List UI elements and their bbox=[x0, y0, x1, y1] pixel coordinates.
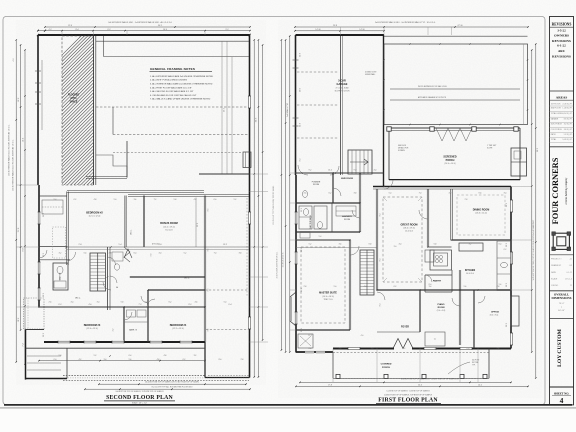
four corners square logo bbox=[553, 233, 569, 249]
front door swing bbox=[393, 339, 413, 349]
right plan dim tick crosses bbox=[332, 172, 334, 174]
svg-text:4'-0: 4'-0 bbox=[159, 252, 162, 254]
hall walls bbox=[107, 247, 109, 310]
svg-text:REVISIONS: REVISIONS bbox=[552, 39, 571, 43]
covered porch posts bbox=[336, 374, 340, 378]
floored attic hatched area bbox=[0, 36, 309, 185]
left plan attic access zigzag bbox=[124, 247, 130, 262]
left wall window ticks upper bbox=[35, 70, 41, 72]
svg-text:10'-2: 10'-2 bbox=[506, 243, 508, 247]
svg-text:4'-8: 4'-8 bbox=[164, 355, 167, 357]
bath2 room bbox=[53, 263, 68, 290]
svg-text:9'-6: 9'-6 bbox=[208, 289, 210, 292]
svg-text:8'-2: 8'-2 bbox=[189, 304, 192, 306]
garage exterior walls bbox=[296, 34, 385, 36]
svg-text:3. ALL INTERIOR WALLS ARE 2x4: 3. ALL INTERIOR WALLS ARE 2x4 UNLESS OTH… bbox=[150, 82, 213, 85]
svg-text:LAUNDRY: LAUNDRY bbox=[342, 215, 353, 218]
svg-text:6'-0: 6'-0 bbox=[54, 359, 57, 361]
svg-text:6'-4: 6'-4 bbox=[309, 348, 312, 350]
office bay window bbox=[511, 296, 519, 326]
dining tray dashed bbox=[457, 195, 505, 235]
left plan window openings right wall bbox=[248, 96, 251, 108]
svg-text:12'-6: 12'-6 bbox=[301, 208, 303, 212]
svg-text:12'-6: 12'-6 bbox=[301, 248, 303, 252]
svg-text:21'-4 14'-10 12'-6: 21'-4 14'-10 12'-6 bbox=[283, 253, 285, 268]
svg-text:19'-6: 19'-6 bbox=[224, 108, 226, 112]
svg-text:PORCH: PORCH bbox=[446, 159, 455, 162]
svg-text:4'-2: 4'-2 bbox=[194, 199, 197, 201]
svg-text:10'-0: 10'-0 bbox=[300, 88, 302, 92]
svg-text:BEDROOM #2: BEDROOM #2 bbox=[86, 211, 103, 214]
svg-text:3'-0: 3'-0 bbox=[371, 348, 374, 350]
svg-text:6'-4: 6'-4 bbox=[134, 252, 137, 254]
left plan top dimension lines bbox=[45, 26, 250, 28]
svg-text:DINING ROOM: DINING ROOM bbox=[473, 208, 489, 211]
svg-text:(8'-0 x 9'-0): (8'-0 x 9'-0) bbox=[490, 315, 499, 317]
svg-text:(9'-0 x 9'-6): (9'-0 x 9'-6) bbox=[437, 310, 446, 312]
svg-text:5'-2: 5'-2 bbox=[234, 199, 237, 201]
svg-text:BEDROOM #4: BEDROOM #4 bbox=[170, 324, 187, 327]
screened porch posts bbox=[387, 127, 391, 131]
svg-text:GARAGE: GARAGE bbox=[551, 118, 559, 121]
patio interior lines bbox=[390, 88, 520, 90]
svg-text:14'-10: 14'-10 bbox=[315, 29, 320, 31]
project info rows bbox=[550, 254, 574, 256]
right plan window openings right wall bbox=[510, 200, 513, 212]
svg-text:47'-10: 47'-10 bbox=[457, 25, 462, 27]
svg-text:11'-2: 11'-2 bbox=[43, 293, 45, 297]
left plan fixtures bath2 bbox=[57, 266, 63, 274]
left plan stair-step hatch boundary bbox=[96, 155, 127, 178]
svg-text:GARAGE: GARAGE bbox=[337, 83, 348, 86]
svg-text:7'-0: 7'-0 bbox=[214, 252, 217, 254]
svg-text:3'-2: 3'-2 bbox=[469, 244, 472, 246]
svg-text:TOTAL: TOTAL bbox=[551, 138, 557, 141]
svg-text:4'-0: 4'-0 bbox=[374, 169, 377, 171]
svg-text:5'-2: 5'-2 bbox=[184, 252, 187, 254]
svg-text:7'-0: 7'-0 bbox=[419, 192, 422, 194]
bath3 walls bbox=[122, 307, 124, 342]
svg-text:REVISIONS: REVISIONS bbox=[552, 54, 571, 58]
svg-text:3,694 SQ.FT.: 3,694 SQ.FT. bbox=[562, 113, 572, 115]
svg-text:4'-2: 4'-2 bbox=[79, 359, 82, 361]
svg-text:8'-0: 8'-0 bbox=[429, 284, 432, 286]
lower-left bay window dotted bbox=[24, 298, 45, 329]
svg-text:FLOORED: FLOORED bbox=[68, 95, 80, 97]
svg-text:COVERED: COVERED bbox=[381, 364, 392, 366]
svg-text:8'-4: 8'-4 bbox=[380, 259, 382, 262]
svg-text:10'-0 CLG: 10'-0 CLG bbox=[466, 273, 475, 275]
svg-text:ROOM: ROOM bbox=[344, 219, 350, 221]
svg-text:6'-0: 6'-0 bbox=[499, 244, 502, 246]
svg-text:PROJECT #: PROJECT # bbox=[551, 259, 562, 261]
sheet number block bbox=[550, 386, 574, 388]
pool bath room bbox=[511, 148, 527, 176]
svg-text:3'-0: 3'-0 bbox=[97, 302, 100, 304]
left plan corner marks bbox=[37, 34, 39, 36]
svg-text:2x6 EXTERIOR WALLS 2x10 FLOOR: 2x6 EXTERIOR WALLS 2x10 FLOOR JOISTS AT … bbox=[12, 139, 15, 191]
svg-text:(24'-0 x 14'-0): (24'-0 x 14'-0) bbox=[445, 163, 456, 165]
svg-text:11'-2: 11'-2 bbox=[43, 213, 45, 217]
kitchen counters right wall bbox=[497, 241, 511, 290]
svg-text:4'-0: 4'-0 bbox=[399, 244, 402, 246]
right plan bottom dimension lines bbox=[300, 381, 511, 383]
svg-text:4'-8: 4'-8 bbox=[94, 199, 97, 201]
svg-text:BATH#2: BATH#2 bbox=[59, 272, 62, 280]
svg-text:2'-4: 2'-4 bbox=[145, 302, 148, 304]
svg-text:JOB NO.: JOB NO. bbox=[551, 285, 559, 287]
svg-text:16'-0 BOTTOM TOP OF SUBFLOOR T: 16'-0 BOTTOM TOP OF SUBFLOOR TO BOTTOM T… bbox=[145, 381, 199, 383]
svg-text:6'-2: 6'-2 bbox=[107, 29, 110, 31]
svg-text:GREAT ROOM: GREAT ROOM bbox=[400, 223, 417, 226]
svg-text:SECOND FLOOR PLAN: SECOND FLOOR PLAN bbox=[106, 395, 173, 401]
svg-text:9'-6: 9'-6 bbox=[208, 249, 210, 252]
svg-text:5'-0 BTM TOP OF SUBFLR · 10 BT: 5'-0 BTM TOP OF SUBFLR · 10 BTM TOP OF S… bbox=[386, 390, 430, 392]
svg-text:(13'-6 x 12'-0): (13'-6 x 12'-0) bbox=[475, 213, 487, 215]
svg-text:POWDER: POWDER bbox=[312, 182, 321, 184]
bath fixtures right of stairs bbox=[112, 252, 123, 261]
right plan extension lines bbox=[290, 172, 296, 174]
svg-text:6-1-22: 6-1-22 bbox=[557, 44, 566, 48]
svg-text:5'-6: 5'-6 bbox=[464, 286, 467, 288]
svg-text:W.I.C.: W.I.C. bbox=[184, 277, 190, 279]
svg-text:ROOM: ROOM bbox=[438, 307, 445, 309]
svg-text:1. ALL EXTERIOR WALLS ARE 2x6: 1. ALL EXTERIOR WALLS ARE 2x6 UNLESS OTH… bbox=[150, 75, 214, 78]
svg-text:PATIO: PATIO bbox=[551, 133, 557, 136]
left plan chase dotted bbox=[53, 227, 66, 258]
svg-text:8'-0 CLG: 8'-0 CLG bbox=[165, 229, 173, 231]
svg-text:4'-2: 4'-2 bbox=[48, 29, 51, 31]
svg-text:DRAWN BY: DRAWN BY bbox=[551, 264, 562, 267]
svg-text:4'-8: 4'-8 bbox=[339, 348, 342, 350]
svg-text:352 SQ.FT.: 352 SQ.FT. bbox=[564, 124, 573, 126]
svg-text:3'-4: 3'-4 bbox=[104, 359, 107, 361]
svg-text:SCREEN: SCREEN bbox=[398, 150, 405, 152]
porch leader note bbox=[448, 362, 470, 374]
svg-text:75'-4": 75'-4" bbox=[559, 303, 565, 305]
svg-text:6'-2: 6'-2 bbox=[183, 359, 186, 361]
svg-text:3'-2: 3'-2 bbox=[59, 252, 62, 254]
right plan fixtures bbox=[302, 191, 307, 198]
svg-text:3'-8: 3'-8 bbox=[239, 252, 242, 254]
svg-text:14'-2: 14'-2 bbox=[478, 384, 482, 386]
svg-text:7. ALL WALLS 9'-0 AND UP ARE U: 7. ALL WALLS 9'-0 AND UP ARE UNLESS OTHE… bbox=[150, 98, 211, 101]
svg-text:12'-0 CLG: 12'-0 CLG bbox=[405, 231, 414, 233]
svg-text:5'-6: 5'-6 bbox=[499, 284, 502, 286]
house right wall bbox=[510, 187, 512, 349]
bedroom2 walls bbox=[124, 196, 126, 248]
rear patio outline bbox=[384, 44, 528, 125]
svg-text:SLOPE TO DOOR: SLOPE TO DOOR bbox=[335, 90, 351, 92]
svg-text:2'-6: 2'-6 bbox=[497, 348, 500, 350]
svg-text:PIANO: PIANO bbox=[438, 303, 445, 306]
svg-text:11'-8: 11'-8 bbox=[300, 53, 302, 57]
svg-text:6. CEILING AND FLOOR JOIST AS: 6. CEILING AND FLOOR JOIST AS CALLED OUT bbox=[150, 94, 197, 97]
patio roof line bbox=[384, 35, 528, 37]
svg-text:5'-4: 5'-4 bbox=[389, 192, 392, 194]
svg-text:5'-6: 5'-6 bbox=[129, 359, 132, 361]
right plan left dimension lines bbox=[280, 40, 282, 350]
upper interior walls bbox=[199, 172, 249, 174]
svg-text:CL: CL bbox=[434, 339, 436, 341]
svg-text:8'-4: 8'-4 bbox=[380, 214, 382, 217]
svg-text:4" CONC. SLAB: 4" CONC. SLAB bbox=[335, 87, 349, 90]
svg-text:9'-6: 9'-6 bbox=[208, 329, 210, 332]
left plan sill line bbox=[26, 347, 206, 349]
left plan right dimension lines bbox=[253, 40, 255, 377]
svg-text:14'-10: 14'-10 bbox=[359, 29, 364, 31]
master bath fixtures bbox=[299, 206, 312, 229]
svg-text:PANTRY: PANTRY bbox=[433, 279, 442, 282]
svg-text:5'-8: 5'-8 bbox=[174, 199, 177, 201]
left plan window openings bottom wall bbox=[58, 340, 70, 343]
svg-text:6'-4: 6'-4 bbox=[129, 355, 132, 357]
svg-text:FOYER: FOYER bbox=[401, 326, 409, 328]
right plan window openings left wall bbox=[294, 212, 297, 224]
svg-text:SCALE: SCALE bbox=[551, 277, 558, 280]
right plan top dimension lines bbox=[295, 26, 528, 28]
great room walls bbox=[375, 189, 377, 290]
svg-text:4'-6: 4'-6 bbox=[435, 348, 438, 350]
svg-text:4'-6: 4'-6 bbox=[195, 302, 198, 304]
svg-text:11'-2: 11'-2 bbox=[43, 333, 45, 337]
svg-text:3'-6: 3'-6 bbox=[134, 199, 137, 201]
svg-text:MASTER SUITE: MASTER SUITE bbox=[319, 292, 337, 295]
svg-text:SEE DECK: SEE DECK bbox=[398, 145, 407, 147]
svg-text:OWNERS: OWNERS bbox=[554, 34, 569, 38]
svg-text:5'-8: 5'-8 bbox=[59, 355, 62, 357]
svg-text:30'-2: 30'-2 bbox=[537, 148, 539, 152]
svg-text:8'-4: 8'-4 bbox=[75, 29, 78, 31]
svg-text:3'-2: 3'-2 bbox=[194, 355, 197, 357]
svg-text:DIMENSIONS: DIMENSIONS bbox=[552, 296, 572, 300]
svg-text:5'-6: 5'-6 bbox=[84, 252, 87, 254]
svg-text:6'-6: 6'-6 bbox=[479, 192, 482, 194]
right plan window openings bottom wall bbox=[348, 347, 360, 350]
master suite walls bbox=[296, 238, 350, 240]
svg-text:W.P. BOTTOM OF TRIM, TOP OF SU: W.P. BOTTOM OF TRIM, TOP OF SUBFLR 16 BL… bbox=[532, 219, 535, 280]
svg-text:10'-2: 10'-2 bbox=[506, 323, 508, 327]
left plan closet lines bbox=[39, 195, 67, 197]
svg-text:29'-8: 29'-8 bbox=[333, 25, 337, 27]
svg-text:SHEET NO.: SHEET NO. bbox=[554, 391, 570, 395]
left plan extension lines bbox=[250, 173, 269, 175]
svg-text:4: 4 bbox=[560, 396, 564, 405]
pantry walls bbox=[425, 274, 452, 276]
svg-text:3-5-22: 3-5-22 bbox=[557, 28, 566, 32]
svg-text:11'-2: 11'-2 bbox=[43, 253, 45, 257]
svg-text:4'-8: 4'-8 bbox=[497, 286, 500, 288]
svg-text:2ND FLOOR: 2ND FLOOR bbox=[551, 107, 562, 109]
svg-text:ATTIC: ATTIC bbox=[70, 97, 77, 100]
svg-text:2x6 EXTERIOR WALLS UNO · 2x4 I: 2x6 EXTERIOR WALLS UNO · 2x4 INTERIOR WA… bbox=[375, 21, 436, 24]
svg-text:4'-2: 4'-2 bbox=[113, 329, 115, 332]
house left wall lower bbox=[295, 175, 297, 353]
svg-text:6-1-22: 6-1-22 bbox=[567, 272, 572, 274]
bottom-right dashed area bbox=[206, 329, 248, 331]
svg-text:a home building company: a home building company bbox=[565, 177, 568, 205]
svg-text:2'-8: 2'-8 bbox=[465, 199, 468, 201]
svg-text:(18'-0 x 19'-6): (18'-0 x 19'-6) bbox=[403, 228, 415, 230]
svg-text:825 SQ.FT.: 825 SQ.FT. bbox=[564, 119, 573, 121]
svg-text:BATH #3: BATH #3 bbox=[129, 329, 137, 332]
svg-text:3'-0: 3'-0 bbox=[394, 246, 397, 248]
svg-text:9'-2: 9'-2 bbox=[225, 29, 228, 31]
svg-text:11'-2: 11'-2 bbox=[308, 335, 312, 337]
kitchen island bbox=[459, 243, 483, 251]
garage door arcs bbox=[298, 165, 308, 175]
svg-text:ROOM: ROOM bbox=[313, 184, 319, 186]
sheet bottom edge line bbox=[4, 404, 572, 406]
first floor plan group bbox=[281, 21, 539, 403]
laundry walls bbox=[296, 230, 360, 232]
great room tray ceiling dashed bbox=[383, 197, 422, 282]
loy custom block bbox=[550, 318, 574, 320]
patio tick marks bbox=[409, 43, 411, 45]
svg-text:1,148 SQ.FT.: 1,148 SQ.FT. bbox=[562, 107, 572, 109]
svg-text:64'-10": 64'-10" bbox=[558, 310, 565, 312]
svg-text:6'-8 BOTTOM TOP OF SUBFLOOR ·: 6'-8 BOTTOM TOP OF SUBFLOOR · 10 BOTTOM … bbox=[401, 379, 459, 381]
svg-text:6'-8: 6'-8 bbox=[369, 244, 372, 246]
svg-text:KITCHEN: KITCHEN bbox=[465, 270, 476, 272]
svg-text:4'-0: 4'-0 bbox=[361, 335, 364, 337]
stair door zigzag bbox=[124, 249, 132, 258]
svg-text:4'-6: 4'-6 bbox=[89, 304, 92, 306]
svg-text:7'-2: 7'-2 bbox=[154, 199, 157, 201]
porch zigzag screen marks bbox=[436, 128, 472, 141]
svg-text:6'-0: 6'-0 bbox=[467, 348, 470, 350]
svg-text:6'-2: 6'-2 bbox=[59, 304, 62, 306]
master window bay bbox=[290, 292, 296, 326]
svg-text:4'-8: 4'-8 bbox=[157, 359, 160, 361]
svg-text:SPACE: SPACE bbox=[70, 100, 78, 103]
svg-text:-01: -01 bbox=[569, 259, 572, 261]
four corners logo block bbox=[550, 146, 574, 148]
svg-text:AREAS: AREAS bbox=[556, 96, 568, 100]
svg-text:2,546 SQ.FT.: 2,546 SQ.FT. bbox=[562, 104, 572, 106]
svg-text:APPLIANCE GARAGE W/ OUTLETS: APPLIANCE GARAGE W/ OUTLETS bbox=[418, 96, 447, 99]
svg-text:8'-0 CLG HT TYP. ALL ROOMS THI: 8'-0 CLG HT TYP. ALL ROOMS THIS FLOOR UN… bbox=[152, 386, 193, 389]
svg-text:SCR. PORCH: SCR. PORCH bbox=[551, 124, 563, 126]
svg-text:FOUR CORNERS: FOUR CORNERS bbox=[551, 157, 560, 224]
svg-text:REVISIONS: REVISIONS bbox=[552, 22, 572, 26]
right plan door arcs bbox=[333, 188, 341, 196]
svg-text:4'-4: 4'-4 bbox=[364, 286, 367, 288]
svg-text:13'-2: 13'-2 bbox=[223, 244, 227, 246]
garage interior bbox=[297, 71, 338, 73]
svg-text:GENERAL FRAMING NOTES: GENERAL FRAMING NOTES bbox=[150, 67, 195, 71]
svg-text:9'-8: 9'-8 bbox=[354, 169, 357, 171]
svg-text:6'-2: 6'-2 bbox=[329, 192, 332, 194]
svg-text:WOOD BURNING F.P. W/ GAS LOGS: WOOD BURNING F.P. W/ GAS LOGS bbox=[418, 85, 447, 88]
title block outer frame bbox=[550, 17, 574, 405]
screened porch walls bbox=[389, 127, 520, 129]
svg-text:6'-2: 6'-2 bbox=[169, 302, 172, 304]
svg-text:1/4"=1-0: 1/4"=1-0 bbox=[565, 278, 572, 280]
svg-text:2. ALLOW 8" FOR ALL BRICK LEDG: 2. ALLOW 8" FOR ALL BRICK LEDGES bbox=[150, 79, 188, 82]
svg-text:DOUBLE JOIST: DOUBLE JOIST bbox=[365, 72, 377, 74]
interior dim columns upper bbox=[221, 41, 223, 174]
svg-text:BONUS ROOM: BONUS ROOM bbox=[160, 222, 178, 225]
svg-text:512 SQ.FT.: 512 SQ.FT. bbox=[564, 134, 573, 136]
svg-text:5'-8: 5'-8 bbox=[121, 302, 124, 304]
svg-text:6'-4: 6'-4 bbox=[229, 304, 232, 306]
covered porch outline bbox=[332, 352, 334, 378]
svg-text:TREY CLG: TREY CLG bbox=[324, 299, 334, 301]
svg-text:266 SQ.FT.: 266 SQ.FT. bbox=[564, 129, 573, 131]
svg-text:6'-2: 6'-2 bbox=[394, 286, 397, 288]
svg-text:8'-0: 8'-0 bbox=[219, 359, 222, 361]
mud room area walls bbox=[296, 171, 384, 173]
svg-text:6x6 POST: 6x6 POST bbox=[472, 360, 479, 362]
svg-text:SCALE : 1/4" = 1'-0": SCALE : 1/4" = 1'-0" bbox=[132, 401, 148, 404]
svg-text:21'-8: 21'-8 bbox=[197, 223, 199, 227]
svg-text:10'-2: 10'-2 bbox=[506, 203, 508, 207]
svg-text:5'-4: 5'-4 bbox=[319, 236, 322, 238]
svg-text:2'-8: 2'-8 bbox=[109, 252, 112, 254]
svg-text:5'-0: 5'-0 bbox=[224, 302, 227, 304]
stairwell second floor bbox=[90, 253, 106, 291]
svg-text:DATE: DATE bbox=[551, 271, 557, 274]
svg-text:ARC: ARC bbox=[558, 49, 566, 53]
svg-text:5'-8: 5'-8 bbox=[434, 244, 437, 246]
bonus room walls bbox=[203, 196, 205, 343]
svg-text:7'-2: 7'-2 bbox=[139, 304, 142, 306]
svg-text:.JW: .JW bbox=[569, 265, 572, 267]
master tray ceiling dashed bbox=[301, 247, 345, 323]
svg-text:2'-8: 2'-8 bbox=[79, 244, 82, 246]
svg-text:(12'-2 x 13'-4): (12'-2 x 13'-4) bbox=[172, 328, 184, 330]
svg-text:(12'-0 x 13'-4): (12'-0 x 13'-4) bbox=[86, 328, 98, 330]
svg-text:5'-2: 5'-2 bbox=[403, 348, 406, 350]
svg-text:5'-2: 5'-2 bbox=[94, 355, 97, 357]
svg-text:2x6 BOTTOM TOP OF SUBFLR, TOP: 2x6 BOTTOM TOP OF SUBFLR, TOP BTM TOP OF… bbox=[115, 391, 164, 393]
left plan window openings left wall bbox=[37, 212, 40, 224]
dining room walls bbox=[450, 189, 452, 240]
svg-text:(14'-2 x 19'-0): (14'-2 x 19'-0) bbox=[163, 226, 175, 228]
svg-text:4'-0: 4'-0 bbox=[13, 59, 15, 62]
svg-text:6'-0: 6'-0 bbox=[214, 199, 217, 201]
svg-text:12'-6: 12'-6 bbox=[301, 328, 303, 332]
svg-text:2'-6: 2'-6 bbox=[49, 302, 52, 304]
svg-text:LOY CUSTOM: LOY CUSTOM bbox=[557, 328, 563, 366]
house main rear wall bbox=[373, 186, 511, 188]
svg-text:TOTAL LIVING: TOTAL LIVING bbox=[551, 112, 563, 115]
svg-text:12'-6: 12'-6 bbox=[301, 288, 303, 292]
svg-text:4'-4: 4'-4 bbox=[71, 302, 74, 304]
svg-text:(12'-0 x 12'-6): (12'-0 x 12'-6) bbox=[89, 216, 101, 218]
svg-text:5'-0: 5'-0 bbox=[334, 286, 337, 288]
svg-text:TYP.: TYP. bbox=[472, 364, 476, 366]
svg-text:4'-2: 4'-2 bbox=[449, 192, 452, 194]
svg-text:5,649 SQ.FT.: 5,649 SQ.FT. bbox=[562, 139, 572, 141]
left plan door arcs bbox=[67, 252, 76, 261]
bedroom level dividing wall bbox=[39, 305, 205, 307]
svg-text:16'-0: 16'-0 bbox=[163, 29, 167, 31]
svg-text:4'-6: 4'-6 bbox=[304, 192, 307, 194]
svg-text:4. ALL FIRST FLOOR WALLS ARE 1: 4. ALL FIRST FLOOR WALLS ARE 10'-1 1/8" bbox=[150, 86, 192, 89]
svg-text:9'-6: 9'-6 bbox=[208, 209, 210, 212]
left plan dim tick crosses bbox=[66, 246, 68, 248]
svg-text:5. ALL SECOND FLOOR WALLS ARE: 5. ALL SECOND FLOOR WALLS ARE 9'-1 1/8" bbox=[150, 90, 194, 93]
attic interior lines bbox=[96, 40, 249, 42]
svg-text:(14'-0 x 16'-0): (14'-0 x 16'-0) bbox=[322, 296, 334, 298]
svg-text:2x10 FLOOR JOISTS AT 16 O.C.: 2x10 FLOOR JOISTS AT 16 O.C. bbox=[276, 251, 279, 278]
attic right wall bbox=[93, 36, 95, 185]
svg-text:3'-4: 3'-4 bbox=[429, 286, 432, 288]
garage left wall windows bbox=[293, 59, 299, 61]
garage stair block bbox=[348, 150, 372, 174]
